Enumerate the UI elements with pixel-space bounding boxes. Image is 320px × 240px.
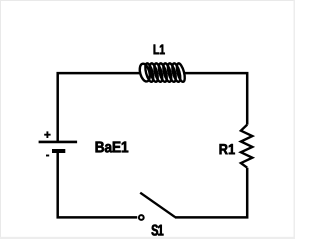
inductor label L1 [154,45,165,55]
wire battery - to bottom-left corner to switch left terminal [58,151,138,217]
inductor L1 coil [138,63,186,83]
battery BaE1 negative plate [52,149,65,153]
wire resistor bottom to bottom-right corner to switch right contact [175,168,247,218]
resistor R1 zigzag [241,125,252,168]
switch label S1 [152,225,164,236]
battery minus sign [46,155,49,157]
battery plus sign [44,131,50,138]
wire coil right terminal to top-right corner down to resistor top [184,73,247,124]
battery label BaE1 [96,142,129,153]
switch S1 open terminal circle [139,215,144,220]
switch S1 lever [140,193,175,218]
battery BaE1 positive plate [39,141,78,144]
resistor label R1 [220,144,235,154]
wire top-left: coil left terminal to top-left corner down to battery + [58,73,141,141]
